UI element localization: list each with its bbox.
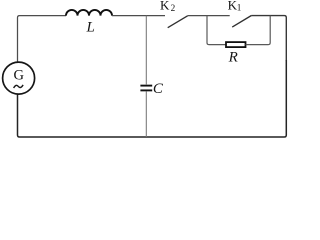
capacitor C top plate [140,85,152,87]
svg-text:K: K [160,0,170,13]
svg-text:R: R [228,50,238,66]
switch K2 blade [168,16,188,28]
inductor L [66,10,112,16]
wire: K1 to top-right corner [251,16,286,61]
switch K1 blade [232,16,251,28]
wire: R-branch left vertical and lead [207,16,226,45]
svg-text:G: G [13,68,24,84]
capacitor C bottom plate [140,89,152,91]
resistor R box [226,42,246,47]
svg-text:1: 1 [237,3,242,13]
wire: bottom left half [18,94,161,137]
svg-text:C: C [153,81,164,97]
generator ~ symbol [14,85,24,88]
wire: right side lower half [160,60,286,137]
svg-text:L: L [86,20,95,36]
wire: capacitor branch lower [145,91,147,137]
wire: K2 to K1 left contact [188,15,230,17]
wire: R-branch right lead and vertical [246,16,271,45]
wire: top-left corner segment from generator top to inductor [18,16,67,63]
generator G circle [3,62,35,94]
svg-text:2: 2 [171,3,176,13]
wire: inductor to K2 left contact [112,15,165,17]
wire: capacitor branch upper [145,16,147,85]
